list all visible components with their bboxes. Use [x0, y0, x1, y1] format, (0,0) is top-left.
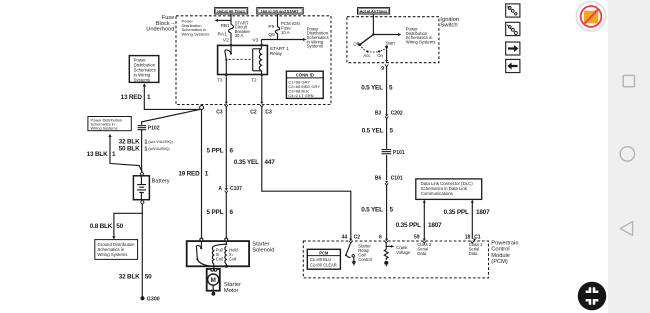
svg-text:PCM: PCM [319, 250, 329, 255]
svg-text:Starter: Starter [252, 241, 269, 247]
svg-text:Hot in ON and START: Hot in ON and START [261, 9, 299, 13]
svg-text:Data: Data [469, 251, 479, 256]
svg-text:Communications: Communications [421, 191, 453, 196]
svg-text:C3: C3 [216, 109, 223, 115]
svg-text:Hot at All Times: Hot at All Times [360, 9, 388, 13]
svg-text:Coil: Coil [216, 256, 223, 261]
svg-text:Wiring Systems: Wiring Systems [91, 126, 118, 131]
svg-text:30 A: 30 A [235, 33, 244, 38]
svg-text:1: 1 [144, 139, 147, 145]
svg-text:Motor: Motor [224, 288, 239, 294]
svg-text:0.5 YEL: 0.5 YEL [361, 85, 383, 92]
svg-text:447: 447 [265, 159, 276, 166]
svg-text:Wiring Systems: Wiring Systems [406, 40, 436, 45]
svg-text:C3: C3 [265, 109, 272, 115]
svg-text:50: 50 [116, 223, 123, 230]
svg-text:1: 1 [144, 146, 147, 152]
svg-text:13 RED: 13 RED [121, 94, 143, 101]
svg-text:Hot at All Times: Hot at All Times [217, 9, 245, 13]
svg-text:Powertrain: Powertrain [491, 240, 518, 246]
svg-text:Off: Off [353, 42, 359, 47]
svg-text:T3: T3 [217, 78, 223, 83]
svg-text:Relay: Relay [270, 51, 283, 57]
svg-text:Data: Data [417, 251, 427, 256]
svg-text:9: 9 [381, 66, 384, 72]
svg-text:32 BLK: 32 BLK [119, 273, 140, 280]
svg-text:13 BLK: 13 BLK [87, 151, 108, 158]
svg-text:Underhood: Underhood [146, 27, 174, 33]
svg-text:Wiring Systems: Wiring Systems [98, 252, 128, 257]
svg-text:50 BLK: 50 BLK [119, 145, 140, 152]
svg-text:Starter: Starter [224, 282, 241, 288]
svg-text:C2: C2 [354, 235, 361, 241]
svg-text:Control: Control [491, 247, 509, 253]
svg-text:(w/V4U/59Q): (w/V4U/59Q) [148, 147, 169, 151]
svg-text:5 PPL: 5 PPL [207, 148, 224, 155]
svg-text:Module: Module [491, 253, 510, 259]
svg-text:P9: P9 [268, 24, 274, 30]
svg-text:RB1: RB1 [220, 23, 230, 29]
svg-text:Switch: Switch [440, 23, 457, 29]
svg-text:M: M [210, 277, 215, 284]
svg-text:Control: Control [358, 257, 372, 262]
svg-text:0.5 YEL: 0.5 YEL [361, 207, 383, 214]
svg-text:32 BLK: 32 BLK [119, 138, 140, 145]
svg-text:0.5 YEL: 0.5 YEL [362, 128, 384, 135]
svg-text:0.35 PPL: 0.35 PPL [396, 222, 421, 229]
svg-text:Wiring Systems: Wiring Systems [182, 32, 210, 37]
svg-text:V3: V3 [252, 38, 258, 44]
svg-text:P101: P101 [393, 150, 405, 156]
svg-text:C101: C101 [391, 175, 403, 181]
svg-text:59: 59 [414, 235, 420, 241]
svg-text:1807: 1807 [476, 209, 490, 216]
svg-text:(w/o V4U/59Q): (w/o V4U/59Q) [148, 140, 172, 144]
svg-text:Systems: Systems [134, 78, 150, 83]
svg-text:5 PPL: 5 PPL [207, 209, 224, 216]
svg-text:C202: C202 [391, 110, 403, 116]
svg-text:B6: B6 [375, 175, 382, 181]
svg-text:10 A: 10 A [281, 30, 290, 35]
svg-text:G300: G300 [147, 297, 160, 303]
svg-text:B3: B3 [375, 110, 382, 116]
svg-text:T2: T2 [251, 78, 257, 83]
svg-text:Start: Start [386, 41, 396, 46]
svg-text:A: A [218, 186, 222, 192]
svg-text:On: On [377, 53, 383, 58]
svg-text:6: 6 [379, 235, 382, 241]
svg-text:Acc: Acc [363, 53, 371, 58]
svg-text:CONN ID: CONN ID [296, 73, 314, 78]
svg-text:0.8 BLK: 0.8 BLK [90, 223, 113, 230]
svg-text:Solenoid: Solenoid [252, 248, 274, 254]
svg-text:Systems: Systems [307, 44, 323, 49]
svg-text:C4=2 LT GRN: C4=2 LT GRN [288, 93, 313, 98]
svg-text:50: 50 [145, 273, 152, 280]
svg-text:C2=80 CLEAR: C2=80 CLEAR [310, 263, 337, 268]
svg-text:44: 44 [342, 235, 348, 241]
svg-text:(PCM): (PCM) [491, 259, 508, 265]
svg-text:Voltage: Voltage [396, 250, 411, 255]
svg-text:0.35 PPL: 0.35 PPL [444, 209, 469, 216]
svg-text:19 RED: 19 RED [178, 170, 200, 177]
svg-text:V2: V2 [223, 38, 229, 44]
svg-text:18: 18 [465, 235, 471, 241]
svg-text:C107: C107 [230, 186, 242, 192]
svg-text:1807: 1807 [428, 222, 442, 229]
svg-text:C2: C2 [250, 109, 257, 115]
svg-text:C1=80 BLU: C1=80 BLU [310, 257, 331, 262]
svg-text:P102: P102 [148, 125, 160, 131]
svg-text:0.35 YEL: 0.35 YEL [234, 159, 259, 166]
svg-text:Coil: Coil [229, 256, 236, 261]
svg-text:Q9: Q9 [268, 32, 275, 38]
svg-text:RA1: RA1 [217, 32, 227, 38]
svg-text:C1: C1 [474, 235, 481, 241]
svg-text:Battery: Battery [152, 178, 170, 184]
